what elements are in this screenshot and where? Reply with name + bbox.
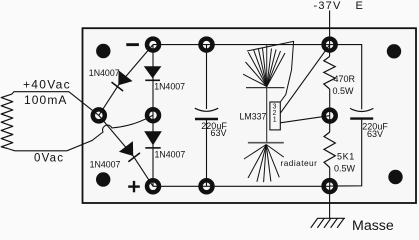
svg-text:0Vac: 0Vac [34,153,64,165]
wire left capacitor branch upper [206,45,208,109]
wire LM337 pin 2 to node T3 [280,45,329,113]
wire top rail [153,44,330,46]
heatsink top bar [246,87,284,89]
terminal T2 [201,39,213,51]
svg-text:1N4007: 1N4007 [90,160,121,170]
terminal T8 ground [324,180,336,192]
terminal T6 [324,110,336,122]
mounting hole bottom-left [96,172,110,186]
wire LM337 heatsink vertical [266,45,268,143]
wire -37V stem [329,11,331,45]
svg-text:LM337: LM337 [240,111,267,121]
diode D1 1N4007 diagonal upper [110,70,132,91]
svg-text:63V: 63V [367,129,383,139]
LM337 regulator U1 body [270,102,280,130]
wire 5K1 bottom stub [329,168,331,187]
wire 470R top stub [329,45,331,57]
capacitor C1 220uF 63V [195,108,218,119]
wire right capacitor to bottom rail [330,119,362,187]
svg-text:470R: 470R [334,74,356,84]
wire left capacitor branch lower [206,120,208,187]
wire +40Vac from coil to node T4 [12,92,99,116]
resistor R1 470R zigzag [324,57,335,90]
wire diagonal T1 to T4 [99,45,153,116]
wire masse stem [329,186,331,218]
terminal T7 plus output [147,180,159,192]
svg-text:radiateur: radiateur [281,158,318,168]
mounting hole bottom-right [388,170,402,184]
label minus [126,43,139,46]
svg-text:1N4007: 1N4007 [155,150,186,160]
svg-text:Masse: Masse [352,218,394,231]
svg-text:0.5W: 0.5W [333,86,355,96]
capacitor C2 220uF 63V [350,108,373,118]
wire 470R bottom stub [329,89,331,116]
svg-text:5K1: 5K1 [337,152,355,162]
wire 5K1 top stub [329,116,331,132]
mounting hole top-left [96,44,110,58]
svg-text:E: E [356,0,363,12]
wire LM337 pin 1 to node T6 [280,116,329,123]
wire bottom rail [153,185,330,187]
heatsink bottom fin fan [244,145,284,183]
svg-text:100mA: 100mA [24,93,68,107]
diode D4 1N4007 vertical lower [144,131,162,148]
svg-text:1N4007: 1N4007 [154,81,185,91]
transformer secondary coil L1 [1,94,13,148]
diode D3 1N4007 diagonal lower [119,141,141,162]
terminal T1 minus output [147,39,159,51]
svg-text:0.5W: 0.5W [334,164,356,174]
label plus [128,181,140,192]
svg-text:+40Vac: +40Vac [23,78,71,92]
svg-text:63V: 63V [211,128,227,138]
terminal T5 [147,109,159,121]
wire top rail to right capacitor [330,45,362,110]
terminal T4 AC input [93,109,105,121]
ground symbol [311,218,345,228]
wire diagonal T4 to T7 [99,115,153,186]
wire 0Vac from coil to node T5 with hop over diagonal [8,115,154,151]
svg-text:-37V: -37V [314,0,342,12]
board outline [83,28,417,203]
heatsink top fin fan [243,48,285,87]
heatsink plate outline [247,41,294,102]
wire diode chain vertical [152,45,154,187]
heatsink bottom bar [248,142,284,144]
terminal T3 [324,39,336,51]
terminal T9 capacitor branch bottom [201,180,213,192]
svg-text:1: 1 [273,116,277,123]
resistor R2 5K1 zigzag [324,132,335,168]
diode D2 1N4007 vertical upper [144,66,162,80]
mounting hole top-right [387,44,401,58]
svg-text:1N4007: 1N4007 [89,68,120,78]
